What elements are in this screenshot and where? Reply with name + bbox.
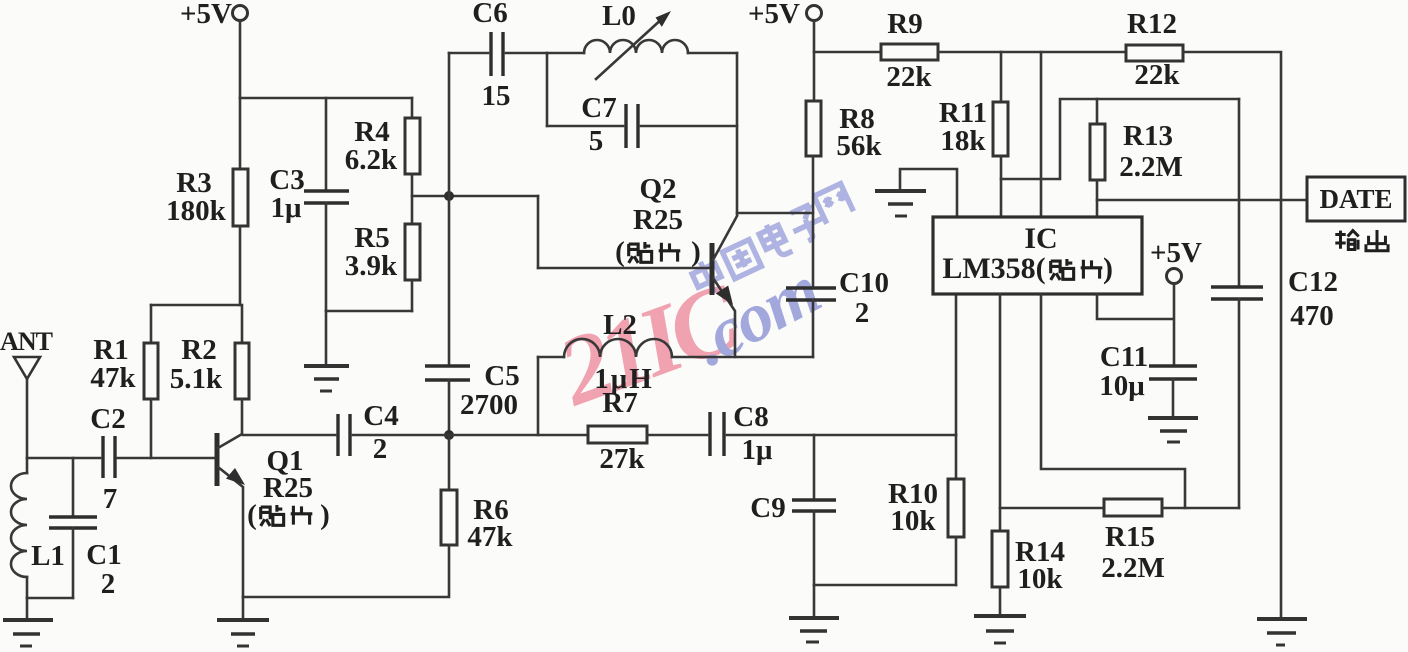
- junction dot B: [444, 430, 454, 440]
- svg-text:2: 2: [855, 297, 870, 329]
- svg-text:(: (: [247, 499, 257, 531]
- capacitor C10 2: [786, 267, 889, 357]
- svg-text:R25: R25: [633, 204, 683, 236]
- wire L0 right to tank corner: [688, 52, 737, 55]
- svg-text:): ): [1103, 252, 1113, 285]
- resistor R10 10k: [888, 435, 964, 585]
- capacitor C5 2700: [425, 360, 520, 435]
- svg-text:2: 2: [373, 433, 388, 465]
- svg-text:DATE: DATE: [1319, 184, 1392, 214]
- svg-text:2700: 2700: [460, 389, 518, 421]
- wire node to R1 top: [151, 304, 240, 307]
- wire +5V rail (right): [814, 51, 881, 54]
- svg-text:10k: 10k: [1017, 563, 1063, 595]
- wire antenna row: [27, 457, 100, 460]
- wire R8 bottom to C10: [812, 156, 815, 288]
- svg-text:C1: C1: [86, 539, 121, 571]
- wire divider junction to bias corner: [412, 195, 538, 198]
- wire +5V left vertical to rail: [239, 21, 242, 99]
- svg-text:2: 2: [101, 568, 116, 600]
- ground under Q1 emitter: [217, 597, 269, 646]
- wire bias to Q2 base: [538, 267, 711, 270]
- svg-text:18k: 18k: [940, 125, 986, 157]
- wire junction B to R7: [449, 434, 588, 437]
- wire C8 to IC input corner: [814, 434, 956, 437]
- resistor R8 56k: [806, 101, 882, 162]
- svg-text:47k: 47k: [467, 521, 513, 553]
- svg-text:L0: L0: [602, 0, 636, 32]
- svg-text:R13: R13: [1123, 120, 1173, 152]
- svg-text:IC: IC: [1024, 222, 1057, 255]
- resistor R13 2.2M: [1090, 99, 1183, 183]
- svg-text:27k: 27k: [599, 443, 645, 475]
- capacitor C8 1u: [710, 401, 814, 466]
- svg-text:+5V: +5V: [180, 0, 232, 30]
- svg-text:C4: C4: [363, 400, 398, 432]
- svg-text:470: 470: [1290, 300, 1334, 332]
- wire R5 bottom: [411, 280, 414, 311]
- watermark 21IC.com pink/blue: [544, 252, 832, 427]
- ground under L1: [3, 598, 53, 646]
- antenna ANT: [0, 327, 53, 458]
- svg-text:2.2M: 2.2M: [1101, 552, 1165, 584]
- watermark CJK 中国电子网 blue: [689, 184, 853, 298]
- svg-text:180k: 180k: [166, 195, 227, 227]
- wire node down to R2 top: [241, 305, 244, 343]
- svg-text:Q2: Q2: [639, 173, 676, 205]
- wire R12 right corner down to ground: [1183, 52, 1281, 619]
- ground under C3: [304, 311, 349, 391]
- wire L1/C1 bottom row: [27, 597, 73, 600]
- svg-text:1μ: 1μ: [271, 192, 303, 224]
- resistor R15 2.2M: [1101, 499, 1165, 584]
- svg-text:C11: C11: [1100, 341, 1148, 373]
- wire R1 bottom to antenna wire: [150, 399, 153, 458]
- wire DATE output from R13 bottom: [1097, 199, 1307, 202]
- transistor Q2 R25 (SMD): [615, 173, 737, 357]
- wire R9 to R12: [938, 51, 1126, 54]
- wire IC +5V pin jog: [1097, 294, 1173, 319]
- capacitor C6 15: [449, 0, 547, 112]
- wire L2 left corner down to main wire: [537, 357, 540, 435]
- capacitor C9: [750, 435, 836, 585]
- svg-text:56k: 56k: [836, 130, 882, 162]
- transistor Q1 R25 (SMD): [217, 433, 330, 597]
- svg-text:10μ: 10μ: [1099, 370, 1145, 402]
- svg-text:1μ: 1μ: [742, 434, 774, 466]
- svg-text:L2: L2: [603, 309, 637, 341]
- svg-text:10k: 10k: [890, 505, 936, 537]
- wire main vertical top (C6 corner down to C5): [448, 53, 451, 366]
- svg-text:R12: R12: [1127, 8, 1177, 40]
- inductor L2 1uH: [538, 309, 672, 395]
- svg-text:6.2k: 6.2k: [345, 144, 398, 176]
- wire collector node to R8 bottom line: [737, 212, 813, 215]
- ground under C9: [789, 585, 839, 642]
- svg-text:22k: 22k: [886, 61, 932, 93]
- inductor L1: [11, 458, 65, 598]
- wire L2 right to C10 corner: [672, 356, 813, 359]
- resistor R5 3.9k: [345, 222, 420, 282]
- wire IC pin to R14: [999, 294, 1002, 531]
- svg-text:2.2M: 2.2M: [1119, 151, 1183, 183]
- svg-text:+5V: +5V: [748, 0, 800, 30]
- wire IC pin to signal node: [955, 294, 958, 435]
- resistor R9 22k: [881, 8, 938, 93]
- svg-text:R9: R9: [887, 8, 922, 40]
- svg-text:15: 15: [482, 80, 511, 112]
- wire R2 bottom to Q1 collector: [241, 399, 244, 434]
- svg-text:): ): [320, 499, 330, 531]
- junction dot A: [444, 191, 454, 201]
- resistor R4 6.2k: [345, 98, 420, 176]
- wire R11 jog to R13 rail: [1001, 99, 1239, 179]
- wire R5 bottom row: [326, 310, 412, 313]
- svg-text:5.1k: 5.1k: [170, 363, 223, 395]
- svg-text:C9: C9: [750, 492, 785, 524]
- capacitor C1 2: [49, 458, 122, 600]
- svg-text:3.9k: 3.9k: [345, 250, 398, 282]
- wire R15 right to C12 bottom: [1162, 507, 1239, 510]
- capacitor C7 5: [547, 92, 737, 157]
- resistor R14 10k: [992, 531, 1065, 595]
- wire R11 bottom to IC: [1000, 156, 1003, 217]
- capacitor C2 7: [90, 403, 214, 515]
- DATE output box: [1307, 177, 1405, 251]
- capacitor C4 2: [338, 400, 449, 465]
- wire rail C6 to L0: [547, 52, 584, 55]
- wire Q1 collector to C4: [243, 434, 335, 437]
- svg-text:C10: C10: [839, 267, 889, 299]
- resistor R6 47k: [441, 435, 513, 553]
- wire IC pin from rail: [1040, 52, 1043, 217]
- svg-text:): ): [691, 236, 701, 268]
- wire R7 to C8: [647, 434, 707, 437]
- svg-text:5: 5: [589, 125, 604, 157]
- resistor R3 180k: [166, 167, 248, 227]
- svg-text:L1: L1: [31, 540, 65, 572]
- wire +5V mid down to R8: [813, 21, 816, 102]
- svg-text:47k: 47k: [90, 362, 136, 394]
- ground bottom right: [1257, 619, 1307, 645]
- op-amp IC LM358 (SMD) box: [933, 217, 1142, 294]
- wire tank left vertical: [546, 53, 549, 126]
- svg-text:22k: 22k: [1134, 59, 1180, 91]
- wire C9 bottom row to R10: [814, 584, 956, 587]
- ground under R14: [974, 587, 1026, 643]
- svg-text:C12: C12: [1288, 266, 1338, 298]
- svg-text:C8: C8: [733, 401, 768, 433]
- resistor R2 5.1k: [170, 334, 249, 399]
- wire IC out pin down-right to R15 net: [1041, 294, 1185, 508]
- ground near IC left: [875, 169, 957, 217]
- svg-text:C2: C2: [90, 403, 125, 435]
- wire R14 node to R15: [1000, 507, 1104, 510]
- resistor R12 22k: [1126, 8, 1183, 91]
- wire R13 bottom to IC: [1096, 180, 1099, 217]
- svg-text:C5: C5: [484, 360, 519, 392]
- svg-text:R7: R7: [602, 387, 637, 419]
- ground under C11: [1148, 418, 1198, 442]
- wire bias corner down: [537, 196, 540, 268]
- svg-text:C6: C6: [472, 0, 507, 29]
- svg-text:R15: R15: [1105, 521, 1155, 553]
- svg-text:7: 7: [103, 483, 118, 515]
- svg-text:R25: R25: [263, 472, 313, 504]
- svg-text:LM358(: LM358(: [942, 252, 1045, 285]
- wire rail to R3 top: [239, 98, 242, 169]
- inductor L0 (variable): [584, 0, 688, 79]
- svg-text:R2: R2: [181, 334, 216, 366]
- capacitor C11 10u: [1099, 284, 1197, 419]
- wire R6 bottom to emitter row: [243, 545, 449, 597]
- wire R3 bottom to node: [239, 226, 242, 305]
- capacitor C3 1u: [269, 98, 349, 311]
- wire tank right vertical down to collector node: [736, 53, 739, 214]
- svg-text:(: (: [615, 236, 625, 268]
- wire top-left rail: [240, 97, 412, 100]
- wire R4-R5 middle: [411, 174, 414, 224]
- resistor R1 47k: [90, 305, 158, 399]
- svg-text:C7: C7: [581, 92, 616, 124]
- svg-text:+5V: +5V: [1150, 237, 1202, 269]
- resistor R11 18k: [939, 52, 1008, 157]
- svg-text:ANT: ANT: [0, 327, 53, 356]
- resistor R7 27k: [588, 387, 647, 475]
- capacitor C12 470: [1211, 99, 1338, 508]
